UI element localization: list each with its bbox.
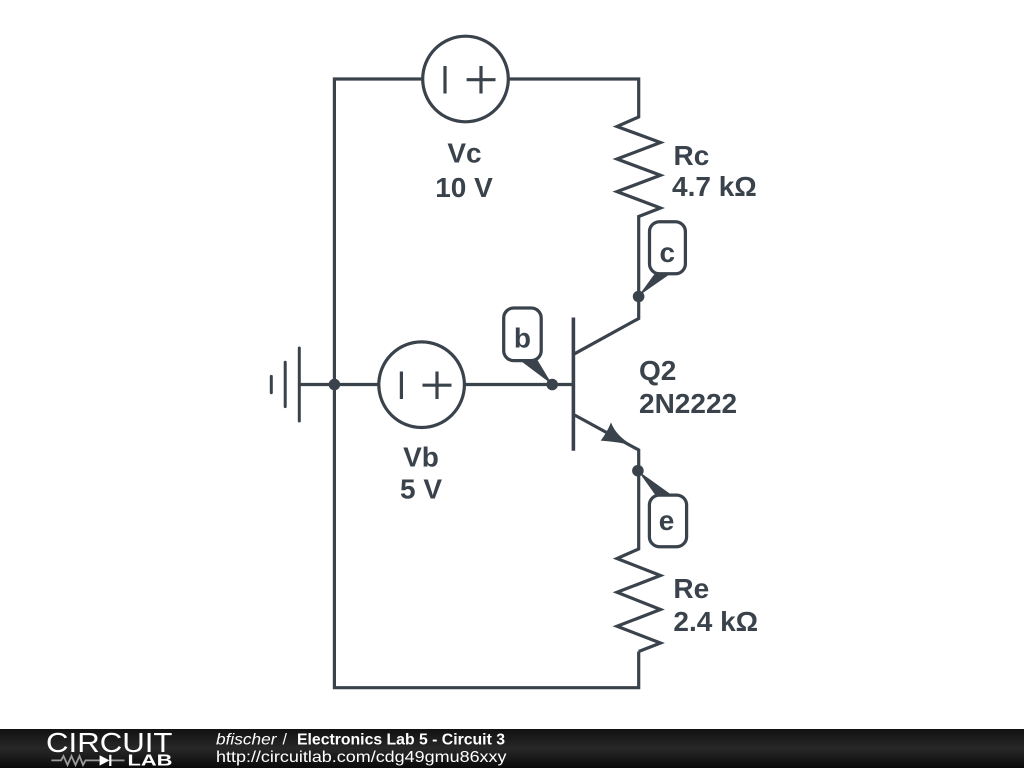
svg-text:Vb: Vb bbox=[403, 442, 439, 473]
svg-text:4.7 kΩ: 4.7 kΩ bbox=[672, 171, 757, 202]
svg-text:Vc: Vc bbox=[447, 138, 481, 169]
svg-text:Q2: Q2 bbox=[639, 355, 676, 386]
svg-text:http://circuitlab.com/cdg49gmu: http://circuitlab.com/cdg49gmu86xxy bbox=[216, 749, 507, 766]
svg-text:Electronics Lab 5 - Circuit 3: Electronics Lab 5 - Circuit 3 bbox=[297, 732, 505, 749]
svg-text:Re: Re bbox=[673, 573, 709, 604]
svg-text:2.4 kΩ: 2.4 kΩ bbox=[673, 606, 758, 637]
svg-text:c: c bbox=[660, 237, 676, 268]
svg-text:/: / bbox=[283, 732, 288, 749]
svg-text:LAB: LAB bbox=[128, 753, 173, 768]
svg-text:e: e bbox=[659, 505, 675, 536]
svg-text:2N2222: 2N2222 bbox=[639, 388, 737, 419]
svg-text:10 V: 10 V bbox=[435, 172, 493, 203]
svg-text:b: b bbox=[514, 323, 531, 354]
svg-text:Rc: Rc bbox=[674, 140, 710, 171]
svg-text:bfischer: bfischer bbox=[216, 732, 277, 749]
svg-text:5 V: 5 V bbox=[400, 474, 442, 505]
